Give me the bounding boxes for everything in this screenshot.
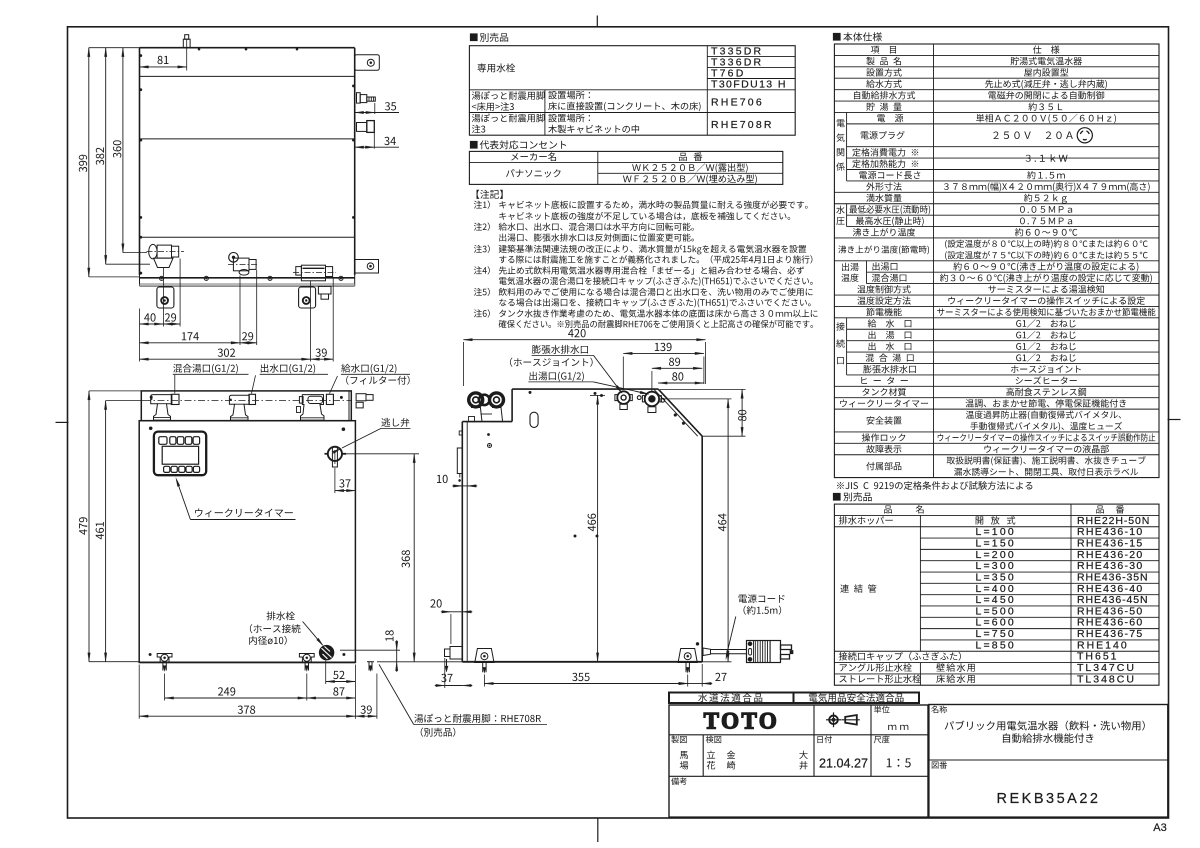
svg-text:L=300: L=300 <box>975 560 1016 572</box>
svg-text:L=850: L=850 <box>975 639 1016 651</box>
svg-text:RHE436-30: RHE436-30 <box>1077 560 1144 572</box>
svg-text:RHE436-10: RHE436-10 <box>1077 526 1144 538</box>
svg-text:L=600: L=600 <box>975 617 1016 629</box>
svg-text:TOTO: TOTO <box>704 709 780 734</box>
svg-text:TL348CU: TL348CU <box>1077 673 1136 685</box>
svg-text:RHE436-40: RHE436-40 <box>1077 583 1144 595</box>
svg-text:T76D: T76D <box>711 68 745 80</box>
svg-text:TH651: TH651 <box>1077 651 1119 663</box>
svg-text:L=500: L=500 <box>975 605 1016 617</box>
svg-text:A3: A3 <box>1153 822 1166 834</box>
svg-text:RHE706: RHE706 <box>711 97 764 109</box>
svg-text:RHE436-75: RHE436-75 <box>1077 628 1144 640</box>
svg-text:RHE708R: RHE708R <box>711 119 774 131</box>
svg-text:RHE140: RHE140 <box>1077 639 1129 651</box>
svg-text:L=200: L=200 <box>975 549 1016 561</box>
svg-text:L=450: L=450 <box>975 594 1016 606</box>
svg-text:RHE22H-50N: RHE22H-50N <box>1077 515 1150 527</box>
svg-text:RHE436-35N: RHE436-35N <box>1077 571 1148 583</box>
svg-text:TL347CU: TL347CU <box>1077 662 1136 674</box>
svg-text:RHE436-60: RHE436-60 <box>1077 617 1144 629</box>
svg-text:L=750: L=750 <box>975 628 1016 640</box>
svg-text:L=400: L=400 <box>975 583 1016 595</box>
svg-text:L=150: L=150 <box>975 537 1016 549</box>
svg-text:T30FDU13 H: T30FDU13 H <box>711 79 787 91</box>
svg-text:L=100: L=100 <box>975 526 1016 538</box>
svg-text:RHE436-15: RHE436-15 <box>1077 537 1144 549</box>
svg-text:21.04.27: 21.04.27 <box>819 756 868 770</box>
svg-text:RHE436-45N: RHE436-45N <box>1077 594 1148 606</box>
svg-text:RHE436-50: RHE436-50 <box>1077 605 1144 617</box>
svg-text:L=350: L=350 <box>975 571 1016 583</box>
svg-text:RHE436-20: RHE436-20 <box>1077 549 1144 561</box>
svg-text:REKB35A22: REKB35A22 <box>997 791 1101 807</box>
